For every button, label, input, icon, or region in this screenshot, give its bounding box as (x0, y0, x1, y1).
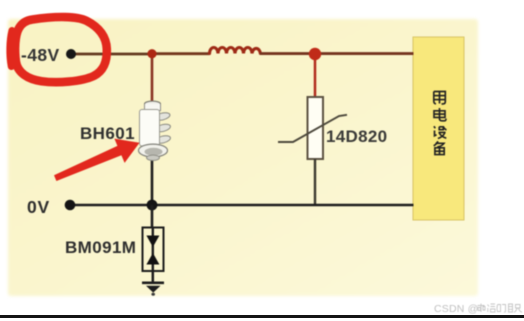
annotation: hand-drawn red circle around -48V (10, 17, 107, 82)
junction top rail at BH601 branch (147, 49, 156, 58)
svg-text:BM091M: BM091M (65, 238, 136, 257)
wire top rail middle segment (junction to inductor) (152, 52, 210, 55)
gas discharge tube BH601 (photo of component) (139, 101, 172, 160)
wire varistor branch lower (314, 159, 316, 205)
wire BM091M to ground (152, 271, 155, 283)
label 备 (drawn glyph) (434, 141, 445, 154)
inductor L1 (210, 48, 261, 54)
wire varistor branch upper (314, 54, 317, 98)
wire top rail left segment (-48V to junction) (75, 53, 152, 56)
watermark hanzi 和谐的皂兄 (drawn) (478, 304, 523, 313)
label 用 (drawn glyph) (434, 92, 446, 104)
ground (142, 283, 164, 296)
svg-text:14D820: 14D820 (326, 127, 387, 146)
svg-text:0V: 0V (27, 197, 50, 217)
photo bottom edge black line (0, 315, 524, 318)
svg-text:-48V: -48V (21, 45, 60, 65)
node -48V terminal (66, 49, 76, 59)
label 设 (drawn glyph) (434, 126, 447, 138)
photographed schematic background (8, 19, 478, 296)
svg-text:CSDN @: CSDN @ (434, 303, 479, 315)
discharge tube BM091M body (143, 228, 164, 272)
wire BH601 branch lower (151, 156, 154, 206)
svg-text:BH601: BH601 (80, 124, 135, 143)
label 电 (drawn glyph) (434, 108, 446, 121)
varistor RV1 body (308, 97, 324, 159)
node 0V terminal (65, 200, 76, 211)
junction top rail at varistor branch (309, 48, 321, 60)
load box 用电设备 (413, 37, 464, 220)
varistor RV1 diagonal stroke (278, 115, 347, 142)
wire bottom junction to BM091M (151, 205, 154, 228)
wire bottom rail 0V (74, 204, 414, 207)
wire BH601 branch upper (151, 54, 154, 104)
wire top rail right segment (inductor to load box) (260, 52, 414, 55)
junction bottom rail at BH601 branch (147, 200, 158, 211)
annotation: red arrow pointing at BH601 (54, 139, 140, 181)
